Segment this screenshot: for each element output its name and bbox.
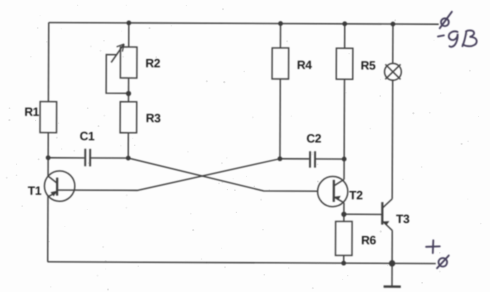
wire top rail to R5 bbox=[344, 24, 346, 48]
resistor R3 bbox=[120, 102, 137, 133]
wire T3 emitter to ground node bbox=[391, 231, 393, 264]
terminal + bbox=[439, 258, 448, 267]
wire top rail to lamp bbox=[392, 24, 394, 63]
wire top rail bbox=[49, 23, 439, 25]
wire rheostat loop bbox=[106, 55, 129, 94]
wire T2 emitter to node bbox=[343, 203, 345, 214]
svg-text:R2: R2 bbox=[145, 56, 160, 70]
svg-text:C2: C2 bbox=[306, 131, 321, 145]
svg-text:R3: R3 bbox=[146, 111, 161, 125]
wire lamp to T3 collector bbox=[391, 80, 394, 199]
resistor R1 bbox=[40, 102, 57, 133]
ground bbox=[391, 263, 393, 285]
handwritten ink layer bbox=[426, 12, 477, 269]
svg-text:R1: R1 bbox=[24, 105, 39, 119]
label -9V handwritten bbox=[438, 35, 444, 36]
svg-text:T3: T3 bbox=[396, 212, 410, 226]
node top rail lamp bbox=[391, 22, 396, 27]
terminal -9V bbox=[441, 18, 449, 26]
wire R4 bottom to C2 node bbox=[279, 79, 281, 159]
wire T1 emitter to bottom rail bbox=[47, 196, 49, 262]
wire T2 collector from C2 node bbox=[343, 159, 345, 179]
svg-text:R4: R4 bbox=[297, 58, 312, 72]
wire R3 bottom to C1 node bbox=[127, 133, 129, 158]
wire C2 right lead bbox=[316, 158, 344, 160]
svg-text:C1: C1 bbox=[80, 129, 95, 143]
wire bottom rail bbox=[48, 262, 436, 264]
node ground bbox=[389, 260, 395, 266]
wire R2 to R3 bbox=[127, 78, 129, 102]
node C1 left bbox=[46, 155, 51, 160]
transistor T3 bbox=[381, 202, 383, 224]
resistor R2 (variable) bbox=[120, 47, 137, 78]
wire left rail upper (top rail to R1) bbox=[47, 23, 49, 102]
resistor R5 bbox=[336, 48, 353, 79]
wire R1 bottom to C1 node bbox=[47, 133, 49, 176]
node C1 right bbox=[126, 156, 131, 161]
node top rail R5 bbox=[342, 21, 347, 26]
node R2-R3 bbox=[126, 91, 131, 96]
resistor R6 bbox=[335, 221, 352, 255]
svg-text:T2: T2 bbox=[349, 188, 363, 202]
lamp HL bbox=[384, 63, 401, 80]
transistor T2 bbox=[318, 176, 348, 206]
capacitor C2 bbox=[310, 151, 315, 167]
wire node to T3 base bbox=[344, 213, 382, 215]
wire node to R6 bbox=[343, 214, 345, 221]
svg-text:R5: R5 bbox=[361, 59, 376, 73]
wire top rail to R4 bbox=[279, 24, 281, 48]
svg-text:R6: R6 bbox=[361, 233, 376, 247]
wire T1 base to C2 bbox=[57, 158, 280, 191]
wire top rail to R2 bbox=[128, 23, 130, 47]
printed schematic (slightly rotated scan) bbox=[24, 20, 439, 287]
node top rail R4 bbox=[278, 21, 283, 26]
wiper arrow of R2 bbox=[111, 44, 124, 62]
node C2 right bbox=[342, 157, 347, 162]
wire cross-coupling C1 to T2 base bbox=[128, 158, 318, 191]
node R6 bottom bbox=[341, 261, 346, 266]
node T2 emitter / T3 base bbox=[341, 212, 346, 217]
node top rail R2 bbox=[126, 20, 131, 25]
label + handwritten bbox=[426, 240, 440, 253]
capacitor C1 bbox=[85, 149, 90, 167]
wire R5 bottom to C2 node bbox=[343, 79, 345, 159]
resistor R4 bbox=[272, 48, 289, 79]
wire C1 left lead bbox=[48, 157, 84, 159]
node C2 left bbox=[278, 156, 283, 161]
wire C2 left lead bbox=[280, 158, 309, 160]
transistor T1 bbox=[44, 171, 75, 202]
svg-text:T1: T1 bbox=[28, 184, 42, 198]
wire C1 right lead bbox=[91, 157, 128, 159]
wire R6 bottom to rail bbox=[343, 255, 345, 263]
